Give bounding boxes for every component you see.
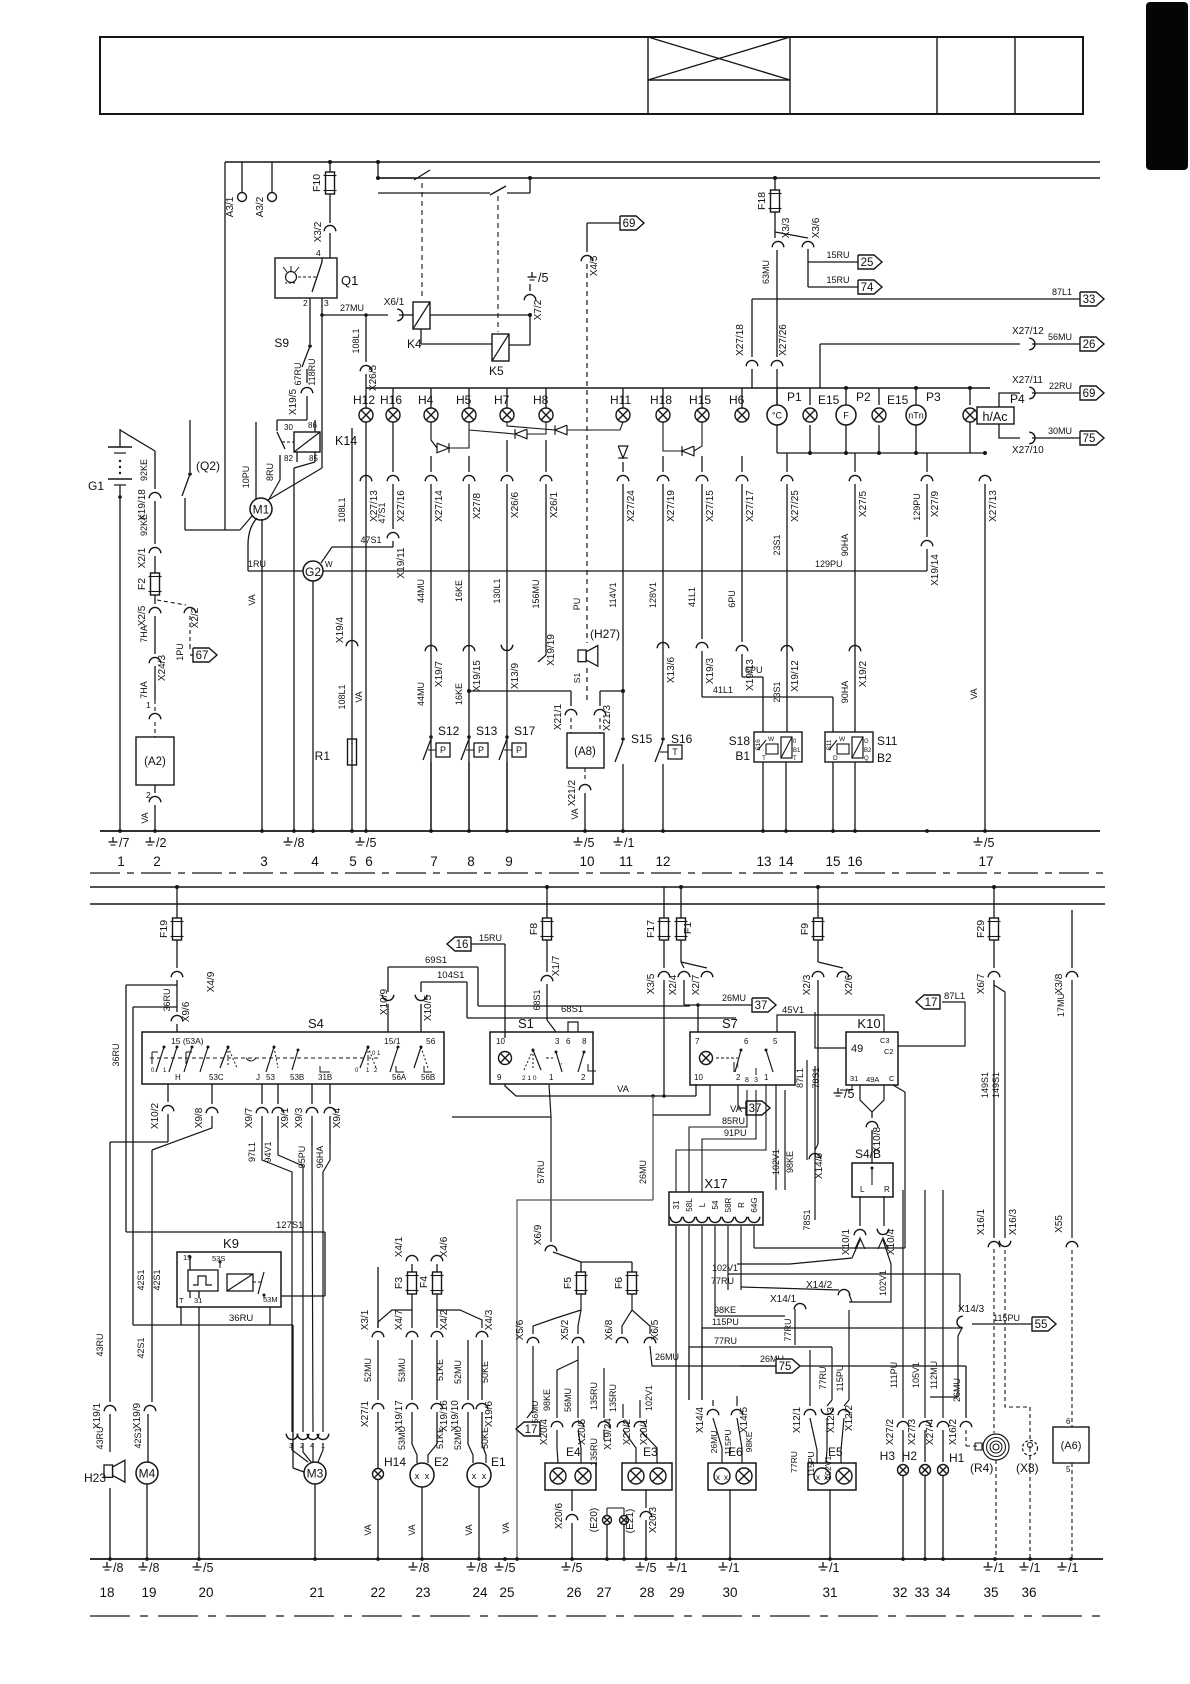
- K9 internal wires: [189, 1256, 192, 1259]
- svg-text:43RU: 43RU: [95, 1426, 105, 1449]
- connector X26/5 feed: [365, 315, 367, 362]
- svg-text:104S1: 104S1: [437, 970, 464, 981]
- connector X3/2: [329, 194, 331, 223]
- svg-text:82: 82: [284, 454, 293, 463]
- svg-text:F5: F5: [562, 1277, 574, 1289]
- wire VA column 17: [979, 475, 991, 481]
- svg-text:22RU: 22RU: [1049, 381, 1072, 391]
- svg-text:6: 6: [365, 854, 373, 869]
- wire 115PU E5 column: [848, 1287, 850, 1300]
- connector X4/9: [171, 971, 183, 977]
- svg-text:X19/15: X19/15: [472, 660, 483, 692]
- svg-text:36: 36: [1021, 1585, 1036, 1600]
- svg-text:7: 7: [430, 854, 438, 869]
- svg-text:X27/1: X27/1: [360, 1400, 371, 1427]
- svg-text:X20/3: X20/3: [648, 1506, 659, 1533]
- svg-text:PU: PU: [572, 598, 582, 611]
- svg-text:H18: H18: [650, 393, 672, 407]
- svg-text:X3/1: X3/1: [360, 1309, 371, 1330]
- svg-text:R: R: [884, 1185, 890, 1194]
- svg-text:128V1: 128V1: [648, 582, 658, 608]
- svg-text:X27/14: X27/14: [434, 490, 445, 522]
- svg-text:44MU: 44MU: [416, 579, 426, 603]
- wire h/Ac to X27/11 arrow 69: [999, 393, 1020, 407]
- svg-text:X27/25: X27/25: [790, 490, 801, 522]
- connector X55: [1066, 1241, 1078, 1247]
- svg-text:P3: P3: [926, 390, 941, 404]
- control unit A2: [136, 737, 174, 785]
- svg-text:129PU: 129PU: [912, 493, 922, 521]
- lamp H4: [430, 388, 432, 408]
- connector X2/5: [149, 607, 161, 613]
- arrow 67: [190, 654, 193, 656]
- svg-text:H: H: [175, 1073, 181, 1082]
- wire Q1 pin2 down: [309, 298, 311, 344]
- connector X16/2: [965, 1366, 967, 1418]
- svg-text:87L1: 87L1: [944, 991, 965, 1002]
- svg-text:0 1: 0 1: [372, 1051, 381, 1057]
- svg-text:X19/12: X19/12: [790, 660, 801, 692]
- wire X4/5 to arrow 69: [586, 223, 588, 252]
- svg-text:36RU: 36RU: [229, 1313, 253, 1324]
- svg-text:57RU: 57RU: [536, 1160, 546, 1183]
- fuse F17: [663, 887, 665, 918]
- svg-text:W: W: [768, 736, 775, 743]
- svg-text:X12/3: X12/3: [826, 1406, 837, 1433]
- grounds bottom: [106, 1562, 108, 1567]
- connector X3/5: [658, 971, 670, 977]
- wire X8 dashed column: [1005, 1250, 1030, 1440]
- svg-text:X27/8: X27/8: [472, 492, 483, 519]
- svg-text:X20/1: X20/1: [639, 1418, 650, 1445]
- svg-text:56MU: 56MU: [563, 1388, 573, 1412]
- svg-text:7: 7: [695, 1037, 700, 1046]
- svg-text:67: 67: [196, 650, 209, 662]
- svg-text:E3: E3: [643, 1445, 658, 1459]
- svg-text:E1: E1: [491, 1455, 506, 1469]
- svg-text:3: 3: [324, 298, 329, 308]
- connector X10/4: [877, 1229, 889, 1235]
- lamp H2: [920, 1465, 931, 1476]
- svg-text:26MU: 26MU: [722, 993, 746, 1003]
- svg-text:/5: /5: [844, 1087, 854, 1101]
- svg-text:1: 1: [117, 854, 125, 869]
- svg-text:25: 25: [861, 257, 874, 269]
- svg-text:77RU: 77RU: [783, 1318, 793, 1341]
- svg-text:9: 9: [497, 1073, 502, 1082]
- svg-text:F17: F17: [645, 920, 657, 938]
- wire F5 split X5/6 X5/2: [556, 1294, 581, 1318]
- svg-text:L: L: [860, 1185, 865, 1194]
- K9 switch contact: [258, 1272, 264, 1294]
- svg-text:VA: VA: [140, 812, 150, 823]
- gauge P1 coolant temp: [767, 405, 787, 425]
- svg-text:53: 53: [266, 1073, 275, 1082]
- wire to X20/5: [577, 1360, 579, 1418]
- wire column 2 92KE chain: [154, 451, 156, 489]
- svg-text:X27/18: X27/18: [735, 324, 746, 356]
- connector X19/1: [104, 1405, 116, 1411]
- wire S7 outputs routing: [695, 1096, 697, 1108]
- svg-text:H8: H8: [533, 393, 549, 407]
- svg-text:/5: /5: [584, 836, 594, 850]
- wire Q1 pin3 118RU: [321, 298, 323, 468]
- lamp H8: [545, 388, 547, 408]
- arrow 69 right: [1080, 386, 1104, 400]
- svg-text:/8: /8: [294, 836, 304, 850]
- svg-text:R: R: [737, 1202, 746, 1208]
- svg-text:56: 56: [426, 1036, 436, 1046]
- connector X6/7: [988, 971, 1000, 977]
- svg-text:2: 2: [581, 1073, 586, 1082]
- wire 27MU to K4: [322, 314, 388, 316]
- svg-text:X19/4: X19/4: [335, 616, 346, 643]
- svg-text:F10: F10: [311, 174, 323, 192]
- svg-text:X2/5: X2/5: [137, 605, 148, 626]
- ground /7 col 1: [112, 837, 114, 842]
- sender S11 B2 box: [825, 732, 873, 762]
- svg-text:E15: E15: [887, 393, 909, 407]
- wire 6PU column (under H6): [741, 456, 743, 472]
- work light E3: [622, 1463, 672, 1490]
- wire 7HA: [154, 616, 156, 654]
- svg-text:X19/11: X19/11: [396, 547, 407, 578]
- svg-text:X4/1: X4/1: [394, 1236, 405, 1257]
- svg-text:102V1: 102V1: [823, 1455, 833, 1480]
- svg-text:T: T: [762, 755, 766, 762]
- svg-text:X27/9: X27/9: [930, 490, 941, 517]
- svg-text:135RU: 135RU: [589, 1438, 599, 1466]
- svg-text:23S1: 23S1: [772, 681, 782, 702]
- svg-text:53MU: 53MU: [397, 1358, 407, 1382]
- fuse F19: [176, 887, 178, 918]
- svg-text:22: 22: [370, 1585, 385, 1600]
- svg-text:30: 30: [284, 423, 293, 432]
- wire left vertical from bus: [224, 162, 226, 530]
- connector X2/3 X2/6 split: [812, 971, 824, 977]
- switch S12 with P box: [429, 735, 433, 739]
- svg-text:H16: H16: [380, 393, 402, 407]
- svg-text:50KE: 50KE: [480, 1427, 490, 1449]
- svg-text:41L1: 41L1: [687, 587, 697, 607]
- svg-text:X10/1: X10/1: [841, 1228, 852, 1255]
- svg-text:1: 1: [146, 700, 151, 710]
- svg-text:K14: K14: [335, 434, 357, 448]
- svg-text:X17: X17: [704, 1176, 727, 1191]
- svg-text:1: 1: [764, 1073, 769, 1082]
- connector X21/3: [600, 690, 623, 692]
- svg-text:98KE: 98KE: [714, 1305, 736, 1315]
- svg-text:9: 9: [505, 854, 513, 869]
- svg-text:92KE: 92KE: [139, 514, 149, 536]
- svg-text:VA: VA: [407, 1524, 417, 1535]
- svg-text:J: J: [256, 1073, 260, 1082]
- wire S4 J 53 53B 31B columns down: [261, 1084, 263, 1104]
- svg-text:E15: E15: [818, 393, 840, 407]
- wire 41L1 column (under H15): [701, 456, 703, 472]
- svg-text:F9: F9: [799, 923, 811, 935]
- svg-text:135RU: 135RU: [589, 1382, 599, 1410]
- work light E4: [545, 1463, 596, 1490]
- wire S1 pin 1 down 57RU: [452, 1084, 551, 1117]
- svg-text:41L1: 41L1: [713, 685, 733, 695]
- lamp H3: [898, 1465, 909, 1476]
- svg-text:X2/7: X2/7: [691, 974, 702, 995]
- svg-text:VA: VA: [501, 1522, 511, 1533]
- fuse F8: [546, 887, 548, 918]
- svg-text:X10/5: X10/5: [423, 994, 434, 1021]
- wire X27/18 column: [751, 299, 753, 357]
- svg-text:47S1: 47S1: [360, 535, 381, 545]
- lamp H12: [365, 388, 367, 408]
- svg-text:56MU: 56MU: [1048, 332, 1072, 342]
- svg-text:15 (53A): 15 (53A): [171, 1036, 204, 1046]
- svg-text:42S1: 42S1: [152, 1269, 162, 1290]
- wire PU dashed column: [586, 264, 588, 643]
- svg-text:X27/15: X27/15: [705, 490, 716, 522]
- wire H2 column 105V1: [924, 1190, 926, 1418]
- svg-text:15RU: 15RU: [826, 275, 849, 285]
- svg-text:(H27): (H27): [590, 627, 620, 641]
- lamp H15: [701, 388, 703, 408]
- terminal A3/2: [271, 162, 273, 192]
- svg-text:95PU: 95PU: [297, 1146, 307, 1169]
- switch S17 with P box: [505, 735, 509, 739]
- arrow 33: [1080, 292, 1104, 306]
- svg-text:55: 55: [1035, 1319, 1048, 1331]
- svg-text:23: 23: [415, 1585, 430, 1600]
- svg-text:2: 2: [153, 854, 161, 869]
- svg-text:32: 32: [892, 1585, 907, 1600]
- svg-text:S4: S4: [308, 1016, 324, 1031]
- wire 23S1 column 14: [786, 453, 788, 472]
- svg-text:X27/19: X27/19: [666, 490, 677, 522]
- diode near H7: [555, 425, 567, 435]
- switch S15: [621, 689, 625, 693]
- svg-text:23S1: 23S1: [772, 534, 782, 555]
- wire branch to K9 feed: [133, 1006, 177, 1008]
- wire 156MU column (under H8): [545, 440, 547, 472]
- svg-text:G: G: [864, 739, 869, 745]
- svg-text:17MU: 17MU: [1056, 993, 1066, 1017]
- relay K10: [846, 1032, 898, 1085]
- headlight switch Q1: [275, 258, 337, 298]
- svg-text:63MU: 63MU: [761, 260, 771, 284]
- svg-text:X19/19: X19/19: [546, 634, 557, 666]
- fuse F18: [774, 178, 776, 190]
- svg-text:Q1: Q1: [341, 273, 358, 288]
- svg-text:52MU: 52MU: [363, 1358, 373, 1382]
- svg-text:x: x: [724, 1473, 728, 1482]
- svg-text:M3: M3: [307, 1467, 324, 1481]
- svg-text:L: L: [698, 1202, 707, 1207]
- svg-text:Q: Q: [864, 756, 869, 762]
- svg-text:VA: VA: [570, 808, 580, 819]
- switch S9: [308, 344, 312, 348]
- svg-text:X19/5: X19/5: [288, 388, 299, 415]
- connector X21/1: [570, 691, 572, 706]
- ground /5 col 17: [977, 837, 979, 842]
- wire K4 to K5 loop: [420, 329, 422, 344]
- svg-text:X16/1: X16/1: [976, 1208, 987, 1235]
- svg-text:16: 16: [456, 939, 469, 951]
- svg-text:87L1: 87L1: [795, 1068, 805, 1088]
- svg-text:68S1: 68S1: [532, 989, 542, 1010]
- svg-text:108L1: 108L1: [337, 497, 347, 522]
- connector X3/3: [774, 232, 776, 238]
- svg-text:X4/7: X4/7: [394, 1309, 405, 1330]
- svg-text:S13: S13: [476, 724, 498, 738]
- svg-text:H1: H1: [949, 1451, 965, 1465]
- svg-text:F18: F18: [756, 192, 768, 210]
- dashed link switch to K5: [497, 196, 499, 332]
- S7 lamp: [700, 1052, 713, 1065]
- svg-text:X13/9: X13/9: [510, 662, 521, 689]
- svg-text:98KE: 98KE: [542, 1389, 552, 1411]
- svg-text:33: 33: [914, 1585, 929, 1600]
- connector X1/7: [541, 975, 553, 981]
- connector X27/13 under H12: [360, 475, 372, 481]
- svg-text:X21/1: X21/1: [553, 703, 564, 730]
- svg-text:52MU: 52MU: [453, 1360, 463, 1384]
- wire 108L1 column 5: [351, 428, 353, 831]
- svg-text:X1/7: X1/7: [551, 955, 562, 976]
- svg-text:X20/6: X20/6: [554, 1502, 565, 1529]
- svg-text:77RU: 77RU: [714, 1336, 737, 1346]
- connector block X17: [669, 1192, 763, 1225]
- wire X5/2 column to X20/4: [577, 1346, 579, 1360]
- svg-text:115PU: 115PU: [835, 1365, 845, 1392]
- connector X10/1: [854, 1229, 866, 1235]
- svg-text:E4: E4: [566, 1445, 581, 1459]
- wire S1 pin 9 VA to S7 pin 10: [505, 1084, 696, 1096]
- lamp H11: [622, 388, 624, 408]
- wire 127S1: [126, 1231, 325, 1233]
- light switch S4: [142, 1032, 444, 1084]
- svg-text:X4/9: X4/9: [206, 971, 217, 992]
- svg-text:C3: C3: [880, 1036, 890, 1045]
- svg-text:149S1: 149S1: [980, 1072, 990, 1098]
- svg-text:5: 5: [349, 854, 357, 869]
- svg-text:H11: H11: [610, 393, 631, 407]
- svg-text:P: P: [516, 745, 522, 755]
- ground /1 col 11: [617, 837, 619, 842]
- svg-text:X19/6: X19/6: [484, 1400, 495, 1427]
- svg-text:X3/6: X3/6: [811, 217, 822, 238]
- svg-text:F29: F29: [975, 920, 987, 938]
- wire 90HA column 16: [849, 475, 861, 481]
- svg-text:X3/8: X3/8: [1054, 973, 1065, 994]
- svg-text:6: 6: [744, 1037, 749, 1046]
- svg-text:24: 24: [472, 1585, 488, 1600]
- wire 127S1 to K9 53M: [324, 1232, 326, 1240]
- svg-text:149S1: 149S1: [991, 1072, 1001, 1098]
- svg-text:D: D: [833, 755, 838, 762]
- switch on bus 2: [378, 177, 414, 179]
- wire 56MU X27/12 to arrow 26: [820, 343, 1020, 345]
- svg-text:X9/3: X9/3: [294, 1107, 305, 1128]
- wire X17 pins down: [675, 1226, 677, 1559]
- connector X20/5: [572, 1421, 584, 1427]
- svg-text:2: 2: [303, 298, 308, 308]
- starter motor M1: [250, 498, 272, 520]
- svg-text:26: 26: [1083, 339, 1096, 351]
- svg-text:H3: H3: [880, 1449, 896, 1463]
- svg-text:75: 75: [1083, 433, 1096, 445]
- svg-text:E6: E6: [728, 1445, 743, 1459]
- S4 internal 31B bracket: [320, 1066, 330, 1072]
- svg-text:49: 49: [851, 1043, 863, 1055]
- wire bottom bus 2: [90, 903, 1105, 905]
- svg-text:G1: G1: [88, 479, 104, 493]
- wire VA column 6: [365, 422, 367, 831]
- fuse F4: [431, 1255, 443, 1261]
- svg-text:F1: F1: [682, 922, 694, 934]
- svg-text:118RU: 118RU: [307, 358, 317, 385]
- svg-text:X24/3: X24/3: [157, 654, 168, 681]
- wire K10 outputs down: [872, 1085, 884, 1112]
- wire H3 column 111PU: [902, 1190, 904, 1418]
- svg-text:/5: /5: [538, 271, 548, 285]
- wire third feeder with switch: [378, 192, 490, 194]
- svg-text:17: 17: [525, 1424, 538, 1436]
- svg-text:11: 11: [619, 854, 633, 869]
- svg-text:8: 8: [745, 1077, 749, 1084]
- svg-text:135RU: 135RU: [608, 1384, 618, 1412]
- svg-text:X12/2: X12/2: [844, 1404, 855, 1431]
- svg-text:15: 15: [825, 854, 840, 869]
- svg-text:X3/2: X3/2: [313, 221, 324, 242]
- connector X2/4 X2/7 split: [681, 962, 684, 968]
- svg-text:P4: P4: [1010, 392, 1025, 406]
- arrow 26: [1080, 337, 1104, 351]
- svg-text:31: 31: [822, 1585, 837, 1600]
- connector X19/4: [346, 640, 358, 646]
- svg-text:69: 69: [623, 218, 636, 230]
- svg-text:X6/9: X6/9: [533, 1224, 544, 1245]
- svg-text:156MU: 156MU: [531, 579, 541, 608]
- connector X14/4: [707, 1409, 719, 1415]
- svg-text:F8: F8: [528, 923, 540, 935]
- svg-text:S11: S11: [877, 734, 898, 748]
- S4 internal contacts: [163, 1046, 166, 1049]
- svg-text:X6/8: X6/8: [604, 1319, 615, 1340]
- ground /5 for K4 relay line: [531, 272, 533, 277]
- arrow 74: [858, 280, 882, 294]
- svg-text:H12: H12: [353, 393, 375, 407]
- svg-text:27: 27: [596, 1585, 611, 1600]
- svg-text:x: x: [716, 1473, 720, 1482]
- wire branch to 36RU left: [126, 984, 177, 986]
- svg-text:X9/7: X9/7: [244, 1107, 255, 1128]
- wire H1 column 112MU: [942, 1190, 944, 1418]
- title block crossed box: [648, 79, 790, 81]
- connector X21/2: [584, 768, 586, 781]
- svg-text:H15: H15: [689, 393, 711, 407]
- wire 26MU column from VA: [651, 1094, 655, 1098]
- connector X7/2: [524, 294, 536, 300]
- tail light E6: [708, 1463, 756, 1490]
- svg-text:P: P: [478, 745, 484, 755]
- svg-text:F2: F2: [136, 578, 148, 590]
- wire S4 bottom pin H down: [167, 1084, 169, 1102]
- wire battery to column 2: [120, 430, 155, 451]
- svg-text:G2: G2: [305, 565, 321, 579]
- svg-text:/1: /1: [829, 1561, 839, 1575]
- wire gauge feeds from lamp bus: [776, 388, 778, 405]
- svg-text:(Q2): (Q2): [196, 459, 220, 473]
- wire 129PU column X27/9: [921, 475, 933, 481]
